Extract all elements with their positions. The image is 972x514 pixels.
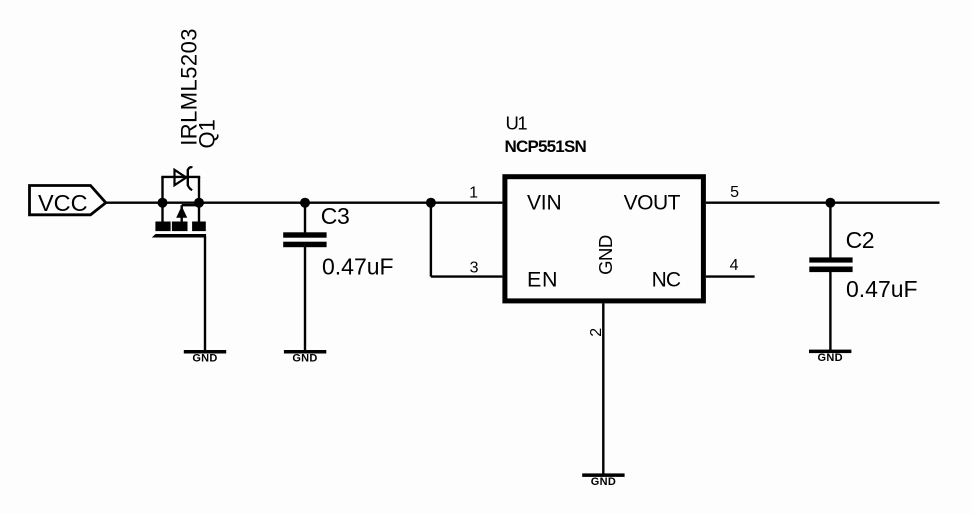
junction dot at Q1 source bbox=[158, 198, 168, 208]
junction dot at EN branch bbox=[426, 198, 436, 208]
wire C2 bottom to ground bbox=[829, 272, 831, 351]
wire C3 bottom to ground bbox=[304, 247, 306, 352]
svg-text:C2: C2 bbox=[846, 227, 875, 253]
wire EN branch vertical bbox=[430, 203, 432, 277]
svg-text:C3: C3 bbox=[321, 203, 350, 229]
svg-text:4: 4 bbox=[730, 257, 739, 274]
channel bar left bbox=[155, 222, 170, 232]
drain vertical bbox=[198, 177, 200, 222]
cathode bottom hook bbox=[188, 185, 192, 190]
junction dot at Q1 drain bbox=[194, 198, 204, 208]
svg-text:0.47uF: 0.47uF bbox=[322, 254, 394, 280]
svg-text:U1: U1 bbox=[506, 112, 528, 133]
source vertical bbox=[161, 177, 163, 222]
svg-text:EN: EN bbox=[527, 267, 558, 291]
channel bar middle bbox=[172, 222, 188, 232]
svg-text:GND: GND bbox=[292, 353, 317, 365]
junction dot at C3 bbox=[300, 198, 310, 208]
svg-text:Q1: Q1 bbox=[195, 119, 220, 148]
channel bar right bbox=[192, 222, 206, 232]
wire C2 top bbox=[829, 203, 831, 258]
bulk vertical bbox=[180, 205, 182, 222]
svg-text:2: 2 bbox=[588, 328, 605, 337]
svg-text:NC: NC bbox=[652, 268, 681, 291]
junction dot at C2 bbox=[825, 198, 835, 208]
svg-text:0.47uF: 0.47uF bbox=[846, 276, 918, 302]
top rail bbox=[161, 176, 200, 178]
svg-text:VCC: VCC bbox=[38, 190, 88, 216]
wire NC stub (pin 4) bbox=[706, 275, 755, 277]
ground under Q1 gate bbox=[184, 350, 226, 365]
body diode cathode bar bbox=[187, 169, 189, 185]
op-amp U1 box (IC NCP551SN) bbox=[505, 177, 704, 301]
supply flag VCC bbox=[30, 186, 106, 216]
capacitor C3 bbox=[283, 232, 326, 247]
svg-text:VIN: VIN bbox=[527, 192, 561, 215]
capacitor C2 bbox=[809, 257, 852, 272]
bulk arrow bbox=[176, 206, 187, 218]
ground under pin 2 bbox=[582, 473, 624, 488]
wire C3 top bbox=[304, 203, 306, 233]
svg-text:GND: GND bbox=[192, 353, 217, 365]
ground under C3 bbox=[284, 350, 326, 365]
svg-text:GND: GND bbox=[591, 476, 616, 488]
body diode triangle bbox=[175, 170, 187, 185]
wire EN branch horizontal to pin 3 bbox=[431, 275, 503, 277]
bulk connector horizontal bbox=[182, 204, 199, 206]
svg-text:GND: GND bbox=[818, 352, 843, 364]
wire GND pin 2 down bbox=[602, 303, 604, 474]
cathode top hook bbox=[188, 167, 193, 170]
transistor Q1 IRLML5203 bbox=[152, 167, 206, 237]
svg-text:3: 3 bbox=[470, 259, 479, 276]
gate line bbox=[152, 234, 206, 238]
ground under C2 bbox=[809, 350, 851, 365]
svg-text:NCP551SN: NCP551SN bbox=[505, 137, 587, 156]
svg-text:GND: GND bbox=[595, 235, 616, 275]
svg-text:1: 1 bbox=[469, 185, 478, 202]
wire VOUT (pin 5) to right bbox=[706, 201, 940, 203]
svg-text:VOUT: VOUT bbox=[624, 192, 681, 215]
wire Q1 gate to ground bbox=[204, 237, 206, 352]
svg-text:5: 5 bbox=[730, 184, 739, 201]
wire VCC to U1 VIN (net VCC/VIN) bbox=[106, 201, 503, 203]
